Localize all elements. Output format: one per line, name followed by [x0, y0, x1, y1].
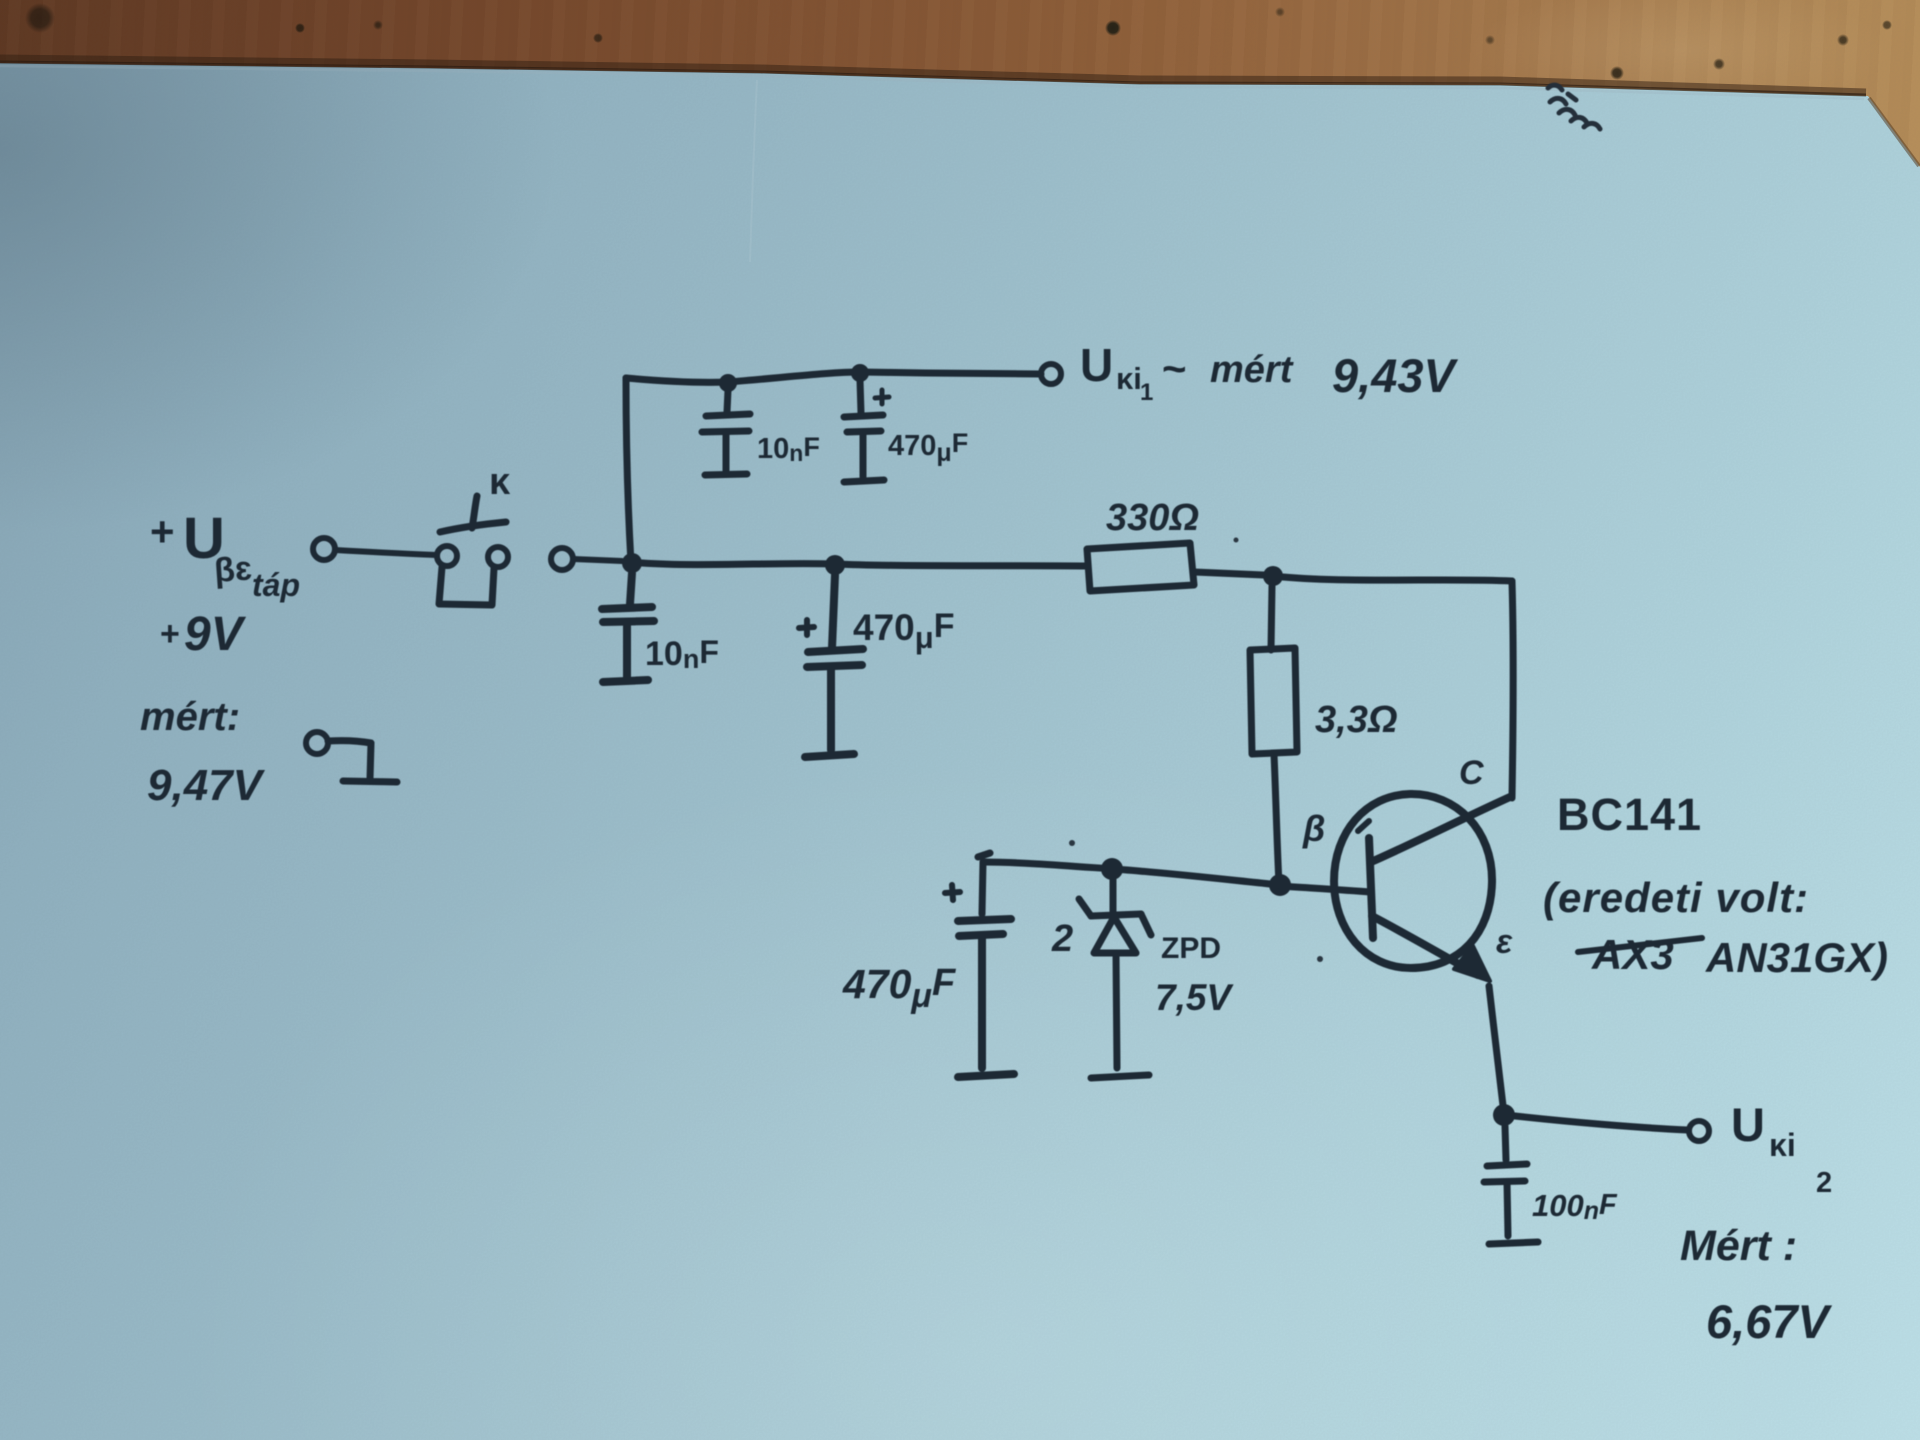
- value 10nF (bottom): [645, 634, 719, 674]
- label Uki2: [1731, 1098, 1832, 1199]
- svg-text:Mért :: Mért :: [1680, 1222, 1797, 1270]
- value 330ohm: [1106, 497, 1199, 539]
- svg-text:BC141: BC141: [1557, 789, 1702, 840]
- pin label C: [1459, 754, 1484, 792]
- label +9V: [160, 608, 247, 661]
- wire switch to node A: [573, 559, 622, 561]
- svg-text:2: 2: [1816, 1167, 1832, 1199]
- zener diode ZPD 7,5V: [1079, 875, 1151, 1078]
- capacitor 470uF (top, polarized): [844, 380, 889, 482]
- switch K: [437, 496, 508, 605]
- wire emitter junction to output terminal: [1515, 1116, 1688, 1130]
- node input terminal: [313, 538, 335, 560]
- wire node A to node B (main rail): [642, 563, 1087, 566]
- value 100nF: [1532, 1188, 1618, 1225]
- resistor R 330ohm: [1087, 543, 1264, 591]
- transistor emitter arrow: [1454, 946, 1490, 981]
- transistor Q1 BC141 body: [1334, 794, 1510, 975]
- pin label E: [1496, 923, 1513, 961]
- wire riser node A to top rail: [626, 378, 631, 563]
- value 7,5V: [1155, 977, 1234, 1018]
- svg-text:10nF: 10nF: [757, 432, 820, 466]
- svg-text:β: β: [1302, 808, 1325, 849]
- label K: [489, 461, 511, 503]
- node terminal after switch: [551, 548, 573, 570]
- measurement jack symbol: [306, 732, 397, 782]
- stray ink specks: [1069, 538, 1323, 963]
- svg-text:U: U: [1080, 339, 1113, 391]
- svg-text:330Ω: 330Ω: [1106, 497, 1199, 539]
- node B junction: [825, 555, 845, 575]
- label 2 (zener): [1051, 918, 1073, 960]
- pin label B: [1302, 808, 1325, 849]
- wire emitter down: [1489, 986, 1504, 1114]
- label 6,67V: [1706, 1295, 1832, 1348]
- value 470uF (bottom): [853, 607, 954, 655]
- svg-text:AX3: AX3: [1591, 931, 1674, 978]
- svg-text:+: +: [150, 508, 175, 555]
- capacitor 470uF (bottom, polarized): [799, 575, 863, 757]
- svg-text:1: 1: [1140, 379, 1153, 406]
- node emitter junction: [1493, 1104, 1515, 1126]
- node A junction: [622, 553, 642, 573]
- label 9,47V: [147, 761, 266, 810]
- wire left corner down: [978, 853, 990, 914]
- svg-text:ε: ε: [1496, 923, 1513, 961]
- wire base junction to transistor base: [1280, 886, 1370, 892]
- node zener junction: [1101, 858, 1123, 880]
- svg-text:táp: táp: [252, 567, 300, 603]
- svg-text:U: U: [1731, 1098, 1765, 1151]
- value 10nF (top): [757, 432, 820, 466]
- wire input to switch: [335, 550, 437, 555]
- svg-text:470μF: 470μF: [853, 607, 954, 655]
- stray pen scribbles on paper edge: [1548, 85, 1600, 129]
- svg-text:AN31GX): AN31GX): [1705, 934, 1888, 981]
- svg-text:mért:: mért:: [140, 695, 240, 739]
- svg-text:6,67V: 6,67V: [1706, 1295, 1832, 1348]
- node top rail junction 2: [851, 364, 869, 382]
- svg-text:ZPD: ZPD: [1161, 932, 1221, 965]
- svg-text:470μF: 470μF: [888, 428, 968, 467]
- value ZPD: [1161, 932, 1221, 965]
- wire node C to right corner: [1283, 577, 1512, 581]
- label Uki1 ~ mert 9,43V: [1080, 339, 1458, 406]
- node top rail junction 1: [719, 374, 737, 392]
- wire right vertical to collector: [1512, 581, 1513, 798]
- label AN31GX): [1705, 934, 1888, 981]
- node base junction: [1269, 874, 1291, 896]
- value 470uF (top): [888, 428, 968, 467]
- wire base rail to left: [983, 862, 1280, 885]
- svg-text:10nF: 10nF: [645, 634, 719, 674]
- svg-text:2: 2: [1051, 918, 1073, 960]
- svg-text:C: C: [1459, 754, 1484, 792]
- capacitor 470uF (left, polarized): [945, 885, 1014, 1077]
- svg-text:7,5V: 7,5V: [1155, 977, 1234, 1018]
- svg-text:3,3Ω: 3,3Ω: [1315, 699, 1398, 741]
- svg-text:9V: 9V: [184, 608, 247, 661]
- label mert:: [140, 695, 240, 739]
- label (eredeti volt:: [1543, 874, 1809, 921]
- label AXS crossed out: [1591, 931, 1674, 978]
- resistor R 3,3ohm: [1250, 648, 1297, 884]
- value 470uF (left): [842, 961, 957, 1015]
- node output terminal Uki2: [1689, 1121, 1709, 1141]
- svg-text:(eredeti volt:: (eredeti volt:: [1543, 874, 1809, 921]
- strike line over AXS: [1578, 938, 1702, 952]
- svg-text:9,43V: 9,43V: [1332, 349, 1458, 402]
- svg-text:~: ~: [1162, 345, 1187, 392]
- label Mert:: [1680, 1222, 1797, 1270]
- svg-text:470μF: 470μF: [842, 961, 957, 1015]
- svg-text:βɛ: βɛ: [213, 549, 253, 590]
- svg-text:9,47V: 9,47V: [147, 761, 266, 810]
- value 3,3ohm: [1315, 699, 1398, 741]
- node output terminal Uki1: [1041, 364, 1061, 384]
- label BC141: [1557, 789, 1702, 840]
- wire top rail: [626, 372, 1041, 382]
- capacitor 10nF (bottom): [602, 573, 654, 682]
- transistor collector start tick: [1358, 821, 1369, 831]
- node C junction: [1263, 566, 1283, 586]
- capacitor 10nF (top): [702, 390, 750, 475]
- svg-text:κ: κ: [489, 461, 511, 503]
- svg-text:mért: mért: [1210, 349, 1294, 391]
- label +UBEtap: [150, 506, 300, 603]
- svg-text:κi: κi: [1116, 361, 1142, 396]
- svg-text:κi: κi: [1769, 1127, 1796, 1163]
- svg-text:+: +: [160, 615, 180, 653]
- capacitor 100nF: [1484, 1126, 1538, 1244]
- wire node C down to resistor: [1271, 586, 1272, 650]
- svg-text:100nF: 100nF: [1532, 1188, 1618, 1225]
